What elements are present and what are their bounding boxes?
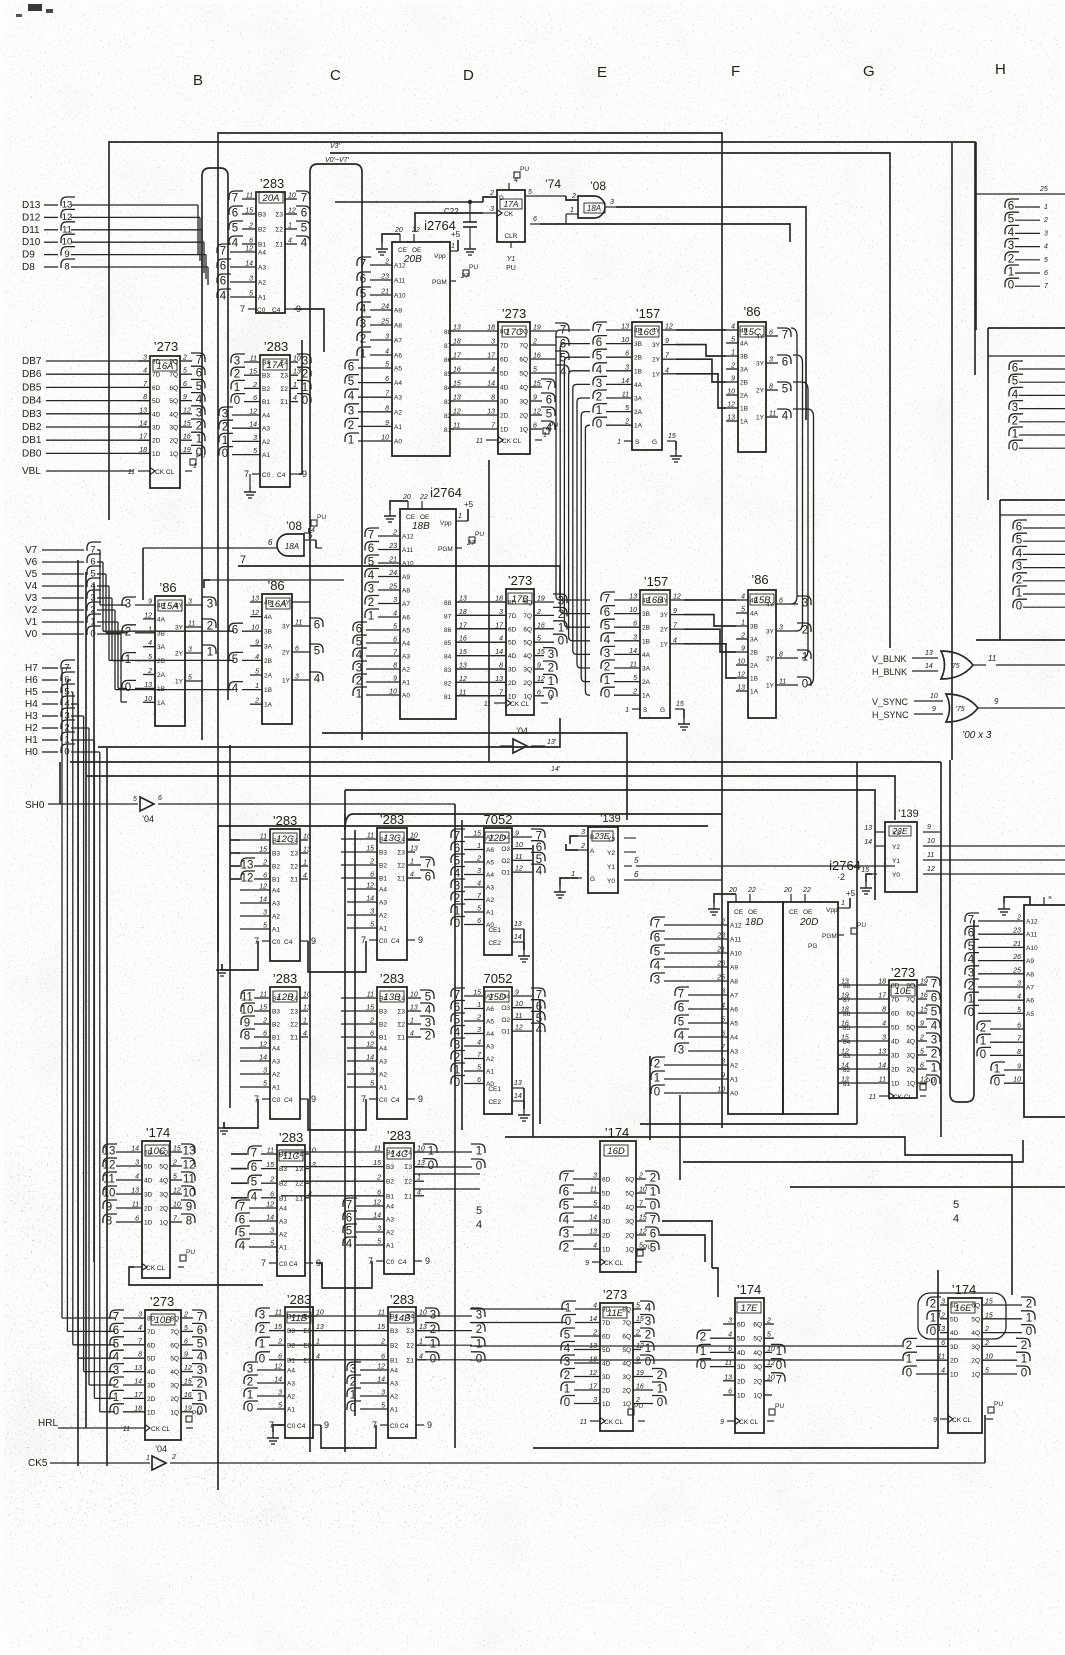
svg-text:A2: A2: [262, 439, 270, 446]
svg-text:2: 2: [906, 1340, 912, 1352]
svg-text:2: 2: [919, 1035, 924, 1042]
svg-text:B1: B1: [287, 1357, 295, 1364]
svg-text:19: 19: [184, 1405, 192, 1412]
svg-text:2: 2: [604, 662, 610, 674]
svg-text:5: 5: [454, 1015, 460, 1027]
wire vertical x489: [488, 460, 490, 762]
svg-text:A2: A2: [390, 1394, 398, 1401]
wire bottom right h1187: [790, 1186, 1065, 1188]
svg-text:6: 6: [1016, 522, 1022, 534]
svg-text:Σ4: Σ4: [406, 1314, 414, 1321]
net label V0'~V7': [325, 157, 350, 164]
svg-text:4A: 4A: [642, 652, 651, 659]
svg-text:3: 3: [113, 1365, 119, 1377]
svg-text:1: 1: [930, 1312, 936, 1324]
svg-text:A4: A4: [287, 1368, 295, 1375]
svg-text:5: 5: [263, 923, 267, 930]
svg-text:5: 5: [767, 1332, 771, 1339]
svg-text:2D: 2D: [602, 1233, 611, 1240]
svg-text:A1: A1: [258, 295, 266, 302]
svg-text:9: 9: [933, 1417, 937, 1424]
svg-text:Vpp: Vpp: [440, 520, 452, 527]
svg-text:5: 5: [346, 1226, 352, 1238]
svg-text:’273: ’273: [603, 1287, 628, 1302]
svg-text:A3: A3: [262, 426, 270, 433]
svg-text:’283: ’283: [273, 813, 298, 828]
svg-text:6: 6: [393, 637, 397, 644]
svg-text:6: 6: [537, 689, 541, 696]
svg-text:1: 1: [548, 676, 554, 688]
svg-text:1: 1: [570, 207, 574, 214]
svg-text:9: 9: [418, 935, 423, 945]
svg-text:86: 86: [444, 357, 452, 364]
svg-text:A12: A12: [1026, 919, 1038, 926]
svg-text:2: 2: [984, 1340, 989, 1347]
svg-text:4: 4: [251, 1191, 258, 1203]
svg-text:3: 3: [941, 1299, 945, 1306]
wire 16B outputs to 15B: [684, 600, 736, 678]
svg-text:21: 21: [1012, 941, 1021, 948]
svg-text:2: 2: [262, 860, 267, 867]
svg-text:DB5: DB5: [22, 382, 42, 393]
svg-text:Σ4: Σ4: [397, 837, 405, 844]
svg-text:HRL: HRL: [38, 1418, 58, 1429]
svg-text:Σ3: Σ3: [406, 1328, 414, 1335]
svg-text:1: 1: [1016, 588, 1022, 600]
svg-text:5: 5: [1008, 214, 1014, 226]
svg-text:5: 5: [563, 1201, 569, 1213]
wire bus x345 drop: [345, 790, 355, 1452]
svg-text:5: 5: [721, 1017, 725, 1024]
svg-text:V1: V1: [25, 617, 38, 628]
svg-text:1: 1: [451, 243, 455, 250]
svg-text:13: 13: [103, 1146, 116, 1158]
svg-text:1B: 1B: [750, 676, 758, 683]
svg-text:2: 2: [454, 893, 460, 905]
svg-text:7: 7: [251, 1148, 257, 1160]
svg-text:2: 2: [645, 1330, 651, 1342]
svg-text:CE: CE: [406, 514, 416, 521]
svg-text:A2: A2: [272, 1072, 280, 1079]
IC 7486 xor 15C: [726, 304, 791, 452]
svg-text:1: 1: [931, 1063, 937, 1075]
svg-text:CK CL: CK CL: [151, 1426, 171, 1433]
wire bus into 11C: [231, 1154, 247, 1198]
svg-text:3D: 3D: [147, 1383, 156, 1390]
wire bottom right h1162: [683, 1140, 1023, 1162]
svg-text:2: 2: [564, 1370, 570, 1382]
svg-text:4Q: 4Q: [971, 1330, 980, 1337]
svg-text:A2: A2: [287, 1394, 295, 1401]
svg-text:5: 5: [393, 624, 397, 631]
svg-text:5: 5: [385, 362, 389, 369]
svg-text:1Y: 1Y: [766, 683, 775, 690]
svg-text:2D: 2D: [891, 1067, 900, 1074]
svg-text:5Q: 5Q: [753, 1336, 762, 1343]
svg-text:4D: 4D: [950, 1330, 959, 1337]
svg-text:9: 9: [665, 338, 669, 345]
svg-text:B3: B3: [379, 1009, 387, 1016]
svg-text:13: 13: [589, 1229, 597, 1236]
svg-text:3: 3: [476, 1310, 482, 1322]
svg-text:4A: 4A: [264, 614, 273, 621]
svg-text:25: 25: [1012, 967, 1021, 974]
svg-text:9: 9: [324, 1420, 329, 1430]
svg-text:B2: B2: [379, 863, 387, 870]
svg-text:15: 15: [366, 846, 374, 853]
svg-text:2: 2: [766, 1318, 771, 1325]
svg-text:4: 4: [138, 1325, 142, 1332]
svg-text:7: 7: [454, 990, 460, 1002]
svg-text:6: 6: [941, 1340, 945, 1347]
svg-text:7Q: 7Q: [906, 997, 915, 1004]
svg-text:8Q: 8Q: [519, 329, 528, 336]
svg-text:A8: A8: [394, 323, 402, 330]
svg-text:7: 7: [197, 1312, 203, 1324]
svg-text:PU: PU: [926, 1078, 935, 1085]
wire left verticals: [60, 560, 94, 1466]
svg-text:15: 15: [259, 847, 267, 854]
svg-text:81: 81: [444, 694, 452, 701]
svg-text:CK CL: CK CL: [502, 438, 522, 445]
ground under 16C: [670, 450, 682, 462]
svg-text:2: 2: [1008, 253, 1014, 265]
svg-text:4: 4: [346, 1239, 353, 1251]
svg-text:3: 3: [678, 1045, 684, 1057]
wire SH0 vertical: [454, 804, 456, 1448]
svg-text:CK CL: CK CL: [739, 1419, 759, 1426]
svg-text:Σ3: Σ3: [290, 1009, 298, 1016]
svg-text:12: 12: [259, 1042, 267, 1049]
svg-text:4: 4: [143, 368, 147, 375]
svg-text:4Q: 4Q: [622, 1361, 631, 1368]
svg-text:A6: A6: [394, 353, 402, 360]
svg-text:4B: 4B: [750, 598, 758, 605]
svg-text:8D: 8D: [508, 600, 517, 607]
svg-text:7: 7: [650, 1215, 656, 1227]
svg-text:4: 4: [604, 634, 611, 646]
svg-text:Σ2: Σ2: [290, 1022, 298, 1029]
svg-text:16: 16: [920, 993, 928, 1000]
svg-text:2: 2: [1026, 1299, 1032, 1311]
svg-text:C0: C0: [386, 1259, 395, 1266]
svg-text:A6: A6: [402, 615, 410, 622]
wire carry 11B-14B: [321, 1425, 376, 1448]
svg-text:10: 10: [173, 1202, 181, 1209]
svg-text:2: 2: [532, 339, 537, 346]
svg-text:3: 3: [263, 910, 267, 917]
wire right edge flags low: [1000, 515, 1065, 613]
svg-text:9: 9: [533, 395, 537, 402]
svg-text:15: 15: [266, 1162, 274, 1169]
svg-text:15: 15: [920, 1007, 928, 1014]
svg-text:2: 2: [113, 1379, 119, 1391]
svg-text:6: 6: [533, 216, 537, 223]
svg-text:A: A: [590, 848, 595, 855]
wire right bus U loop: [950, 760, 974, 1102]
svg-text:2B: 2B: [642, 625, 650, 632]
svg-text:15: 15: [259, 1005, 267, 1012]
svg-text:H3: H3: [25, 711, 38, 722]
svg-text:1: 1: [617, 439, 621, 446]
svg-text:’273: ’273: [891, 965, 916, 980]
svg-text:3A: 3A: [750, 637, 759, 644]
svg-text:4Y: 4Y: [756, 334, 765, 341]
svg-text:1Q: 1Q: [753, 1393, 762, 1400]
svg-text:SH0: SH0: [25, 800, 45, 811]
svg-text:22: 22: [419, 494, 428, 501]
svg-text:3Y: 3Y: [756, 361, 765, 368]
svg-text:·2: ·2: [837, 872, 845, 882]
svg-text:7: 7: [931, 979, 937, 991]
svg-text:CE: CE: [734, 909, 744, 916]
svg-text:3Q: 3Q: [169, 425, 178, 432]
svg-text:V_SYNC: V_SYNC: [872, 697, 909, 707]
svg-text:D13: D13: [22, 200, 41, 211]
svg-text:O1: O1: [501, 1029, 510, 1036]
svg-text:Y1: Y1: [892, 858, 900, 865]
svg-text:PG: PG: [808, 943, 817, 950]
svg-text:6: 6: [232, 208, 238, 220]
svg-text:A1: A1: [272, 927, 280, 934]
svg-text:’75: ’75: [955, 706, 964, 713]
svg-text:A5: A5: [1026, 1011, 1034, 1018]
svg-text:15: 15: [985, 1312, 993, 1319]
svg-text:OE: OE: [420, 514, 430, 521]
svg-text:0: 0: [125, 682, 131, 694]
svg-text:15: 15: [861, 867, 869, 874]
svg-text:3: 3: [882, 1035, 886, 1042]
svg-text:Σ3: Σ3: [280, 373, 288, 380]
svg-text:6: 6: [158, 795, 162, 802]
svg-text:O4: O4: [501, 994, 510, 1001]
svg-text:4D: 4D: [737, 1350, 746, 1357]
svg-text:3B: 3B: [750, 624, 758, 631]
svg-text:A2: A2: [486, 897, 494, 904]
svg-text:2: 2: [376, 1175, 381, 1182]
IC 74273 register 10B: [110, 1294, 206, 1440]
svg-text:6: 6: [728, 1346, 732, 1353]
svg-text:V_BLNK: V_BLNK: [872, 654, 907, 664]
svg-text:Y2: Y2: [892, 844, 900, 851]
svg-text:3: 3: [548, 649, 554, 661]
svg-text:7Q: 7Q: [170, 1329, 179, 1336]
svg-text:1: 1: [776, 1346, 782, 1358]
svg-text:8: 8: [393, 663, 397, 670]
svg-text:3B: 3B: [642, 611, 650, 618]
svg-text:10: 10: [985, 1354, 993, 1361]
IC 74283 adder 20A: [217, 176, 310, 314]
svg-text:13: 13: [183, 1146, 196, 1158]
svg-text:10: 10: [410, 833, 418, 840]
svg-text:15: 15: [366, 1005, 374, 1012]
svg-text:0: 0: [1026, 1326, 1032, 1338]
svg-text:6: 6: [232, 625, 238, 637]
svg-text:10: 10: [241, 1005, 254, 1017]
svg-text:1D: 1D: [602, 1401, 611, 1408]
svg-text:2D: 2D: [152, 438, 161, 445]
svg-text:2: 2: [247, 1377, 253, 1389]
svg-text:3A: 3A: [740, 367, 749, 374]
svg-text:PU: PU: [196, 453, 205, 460]
svg-text:25: 25: [716, 975, 725, 982]
svg-text:C4: C4: [284, 939, 293, 946]
svg-text:6: 6: [728, 1389, 732, 1396]
svg-text:4Q: 4Q: [906, 1039, 915, 1046]
svg-text:1: 1: [288, 223, 292, 230]
svg-text:6: 6: [634, 870, 639, 879]
svg-text:0: 0: [1008, 280, 1014, 292]
svg-text:15: 15: [274, 1324, 282, 1331]
svg-text:CK CL: CK CL: [510, 701, 530, 708]
svg-text:3: 3: [295, 674, 299, 681]
svg-text:3Y: 3Y: [652, 342, 661, 349]
svg-text:B4: B4: [390, 1314, 398, 1321]
svg-text:7: 7: [360, 259, 366, 271]
svg-text:’04: ’04: [516, 726, 528, 736]
svg-text:6: 6: [220, 261, 226, 273]
svg-text:3: 3: [477, 1027, 481, 1034]
svg-text:6: 6: [253, 395, 257, 402]
svg-text:11: 11: [879, 1077, 886, 1084]
svg-text:+5: +5: [464, 500, 474, 509]
svg-text:7D: 7D: [500, 343, 509, 350]
svg-text:2: 2: [730, 363, 735, 370]
wire mid band 8: [345, 814, 722, 830]
svg-text:Σ2: Σ2: [275, 227, 283, 234]
svg-text:16: 16: [183, 434, 191, 441]
svg-text:12: 12: [589, 1370, 597, 1377]
IC 74283 adder 12C: [234, 813, 316, 961]
svg-text:2Y: 2Y: [756, 388, 765, 395]
svg-text:6Q: 6Q: [159, 1150, 168, 1157]
svg-text:’157: ’157: [636, 306, 661, 321]
svg-text:3: 3: [370, 1068, 374, 1075]
svg-text:1D: 1D: [500, 427, 509, 434]
svg-text:85: 85: [444, 640, 452, 647]
svg-text:7Q: 7Q: [523, 613, 532, 620]
svg-text:B3: B3: [379, 850, 387, 857]
svg-text:4D: 4D: [602, 1205, 611, 1212]
svg-text:’00 x 3: ’00 x 3: [962, 730, 992, 741]
scan mark top edge: [16, 4, 53, 17]
svg-text:B2: B2: [272, 1022, 280, 1029]
svg-text:D: D: [499, 195, 504, 202]
svg-text:4Q: 4Q: [523, 653, 532, 660]
svg-text:A3: A3: [394, 395, 402, 402]
svg-text:B1: B1: [262, 399, 270, 406]
IC 74273 register 10E: [838, 965, 940, 1101]
svg-text:4: 4: [673, 637, 677, 644]
svg-text:5: 5: [253, 448, 257, 455]
svg-text:1D: 1D: [508, 693, 517, 700]
svg-text:1Q: 1Q: [622, 1401, 631, 1408]
IC 7486 xor 16A: [229, 578, 323, 724]
svg-text:11: 11: [367, 992, 374, 999]
svg-text:3Q: 3Q: [170, 1383, 179, 1390]
svg-text:CK CL: CK CL: [604, 1260, 624, 1267]
svg-text:7: 7: [240, 554, 246, 566]
wire mid band 2: [98, 718, 560, 747]
svg-text:6: 6: [477, 1077, 481, 1084]
wire carry 12C-13C: [230, 941, 366, 972]
svg-text:4: 4: [596, 364, 603, 376]
svg-text:1: 1: [259, 1339, 265, 1351]
svg-text:6: 6: [650, 1229, 656, 1241]
svg-text:7: 7: [244, 469, 249, 479]
svg-text:15: 15: [373, 1160, 381, 1167]
svg-text:V4: V4: [25, 581, 38, 592]
IC 74283 adder 11B: [244, 1292, 329, 1438]
svg-text:4D: 4D: [152, 411, 161, 418]
svg-text:6: 6: [425, 872, 431, 884]
svg-text:5Q: 5Q: [622, 1347, 631, 1354]
wire 18A-V output: [316, 540, 322, 548]
svg-text:4A: 4A: [740, 341, 749, 348]
wire 17A Qbar run: [540, 214, 790, 242]
wire bottom right h1268: [712, 1268, 718, 1297]
svg-text:1: 1: [293, 382, 297, 389]
svg-text:1A: 1A: [634, 423, 643, 430]
svg-text:13: 13: [621, 324, 629, 331]
wire mid band 5: [345, 790, 875, 900]
svg-text:14: 14: [373, 1213, 381, 1220]
svg-text:3: 3: [596, 378, 602, 390]
svg-text:14: 14: [139, 421, 147, 428]
svg-text:20: 20: [728, 887, 737, 894]
svg-text:A2: A2: [279, 1232, 287, 1239]
svg-text:1A: 1A: [264, 702, 273, 709]
svg-text:18A: 18A: [285, 542, 299, 551]
svg-text:0: 0: [428, 1160, 434, 1172]
wire 5 4 labels right of 14C: [953, 1199, 959, 1225]
svg-text:11: 11: [590, 1187, 597, 1194]
svg-text:i2764: i2764: [430, 485, 462, 500]
svg-text:1: 1: [654, 1073, 660, 1085]
svg-text:A2: A2: [272, 914, 280, 921]
node V.SYNC H.SYNC labels: [872, 693, 943, 720]
svg-text:6D: 6D: [950, 1303, 959, 1310]
svg-text:4D: 4D: [602, 1361, 611, 1368]
svg-text:7Q: 7Q: [169, 372, 178, 379]
svg-text:13: 13: [144, 682, 152, 689]
svg-text:8D: 8D: [147, 1316, 156, 1323]
svg-text:11: 11: [275, 1310, 282, 1317]
svg-text:3: 3: [654, 975, 660, 987]
svg-text:6: 6: [563, 1187, 569, 1199]
svg-text:5D: 5D: [602, 1347, 611, 1354]
svg-text:+5: +5: [451, 230, 461, 239]
svg-text:10: 10: [727, 389, 735, 396]
svg-text:’08: ’08: [286, 519, 302, 533]
svg-text:1D: 1D: [144, 1220, 153, 1227]
svg-text:6: 6: [454, 843, 460, 855]
svg-text:5: 5: [678, 1017, 684, 1029]
svg-text:B2: B2: [379, 1022, 387, 1029]
svg-text:B3: B3: [287, 1328, 295, 1335]
svg-text:1: 1: [146, 1455, 150, 1462]
svg-text:2: 2: [632, 689, 637, 696]
svg-text:11: 11: [128, 469, 135, 476]
svg-text:11: 11: [103, 1174, 115, 1186]
svg-text:5: 5: [654, 947, 660, 959]
svg-text:2B: 2B: [157, 658, 165, 665]
svg-text:3A: 3A: [642, 666, 651, 673]
svg-text:7: 7: [368, 530, 374, 542]
svg-text:10: 10: [1013, 1077, 1021, 1084]
svg-text:2: 2: [638, 1173, 643, 1180]
svg-text:1Q: 1Q: [169, 451, 178, 458]
